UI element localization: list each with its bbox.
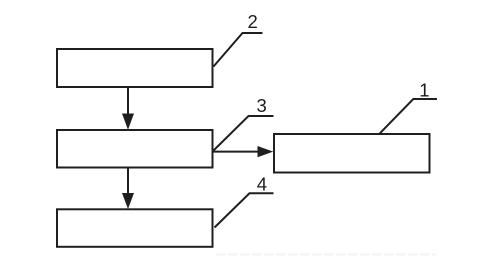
block 3 (middle-left rectangle) (57, 130, 213, 168)
svg-text:3: 3 (256, 95, 266, 116)
wire: arrow shaft block2 to block3 (127, 88, 129, 115)
faint scan line at bottom (216, 253, 436, 255)
block 2 (top-left rectangle) (57, 49, 213, 87)
arrowhead into block 3 (122, 114, 134, 130)
block 1 (right rectangle) (274, 134, 430, 173)
arrowhead into block 1 (258, 146, 274, 157)
svg-text:2: 2 (248, 11, 258, 32)
leader line for numeral 1 (379, 99, 437, 134)
svg-text:4: 4 (257, 173, 267, 194)
wire: arrow shaft block3 to block4 (127, 168, 129, 196)
arrowhead into block 4 (122, 193, 134, 209)
svg-text:1: 1 (419, 80, 429, 101)
leader line for numeral 3 (214, 116, 274, 151)
leader line for numeral 4 (215, 193, 274, 227)
block 4 (bottom-left rectangle) (57, 209, 213, 247)
leader line for numeral 2 (214, 33, 263, 67)
wire: arrow shaft block3 to block1 (213, 151, 259, 153)
